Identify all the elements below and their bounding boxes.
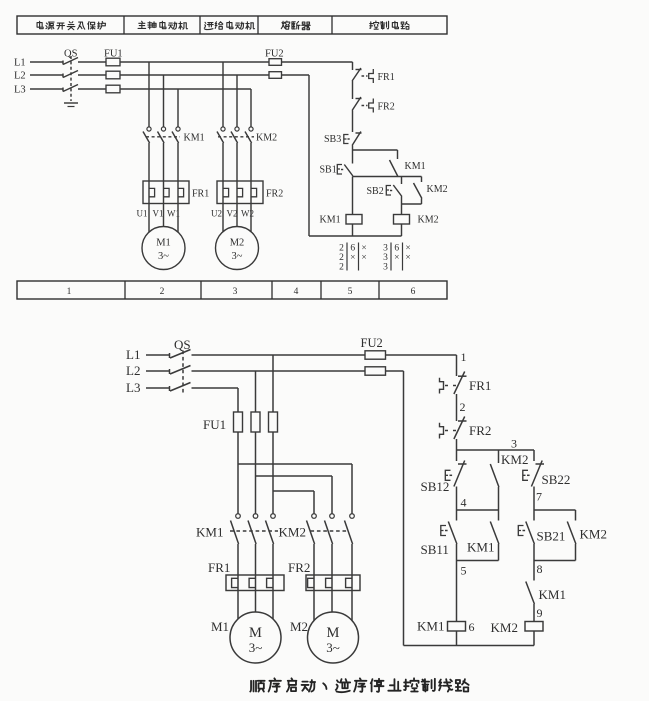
svg-text:SB12: SB12 [421, 479, 450, 494]
svg-text:L3: L3 [126, 380, 140, 395]
svg-text:FU2: FU2 [361, 336, 383, 350]
svg-text:FR1: FR1 [192, 189, 209, 200]
svg-text:L2: L2 [14, 71, 26, 82]
svg-text:M: M [249, 625, 262, 641]
svg-text:3~: 3~ [232, 251, 243, 262]
svg-text:×: × [361, 244, 366, 254]
svg-text:4: 4 [294, 287, 299, 297]
svg-text:FU2: FU2 [265, 49, 284, 60]
svg-text:SB2: SB2 [367, 186, 384, 197]
svg-text:FR2: FR2 [378, 102, 395, 113]
svg-text:5: 5 [461, 564, 467, 578]
svg-text:L2: L2 [126, 363, 140, 378]
svg-text:KM2: KM2 [279, 525, 306, 540]
svg-text:KM1: KM1 [417, 619, 444, 634]
svg-text:6: 6 [469, 620, 475, 634]
svg-text:3: 3 [383, 253, 388, 263]
svg-text:6: 6 [350, 244, 355, 254]
svg-text:M: M [327, 625, 340, 641]
svg-text:3~: 3~ [326, 640, 340, 655]
svg-text:KM1: KM1 [184, 133, 205, 144]
svg-text:KM2: KM2 [427, 184, 448, 195]
svg-text:L1: L1 [14, 58, 26, 69]
svg-text:KM1: KM1 [467, 540, 494, 555]
svg-text:W2: W2 [241, 209, 254, 219]
svg-text:KM2: KM2 [501, 452, 528, 467]
svg-text:2: 2 [339, 244, 344, 254]
svg-text:M1: M1 [156, 238, 171, 249]
svg-text:U2: U2 [211, 209, 222, 219]
svg-text:2: 2 [160, 287, 165, 297]
svg-text:L3: L3 [14, 85, 26, 96]
svg-text:6: 6 [411, 287, 416, 297]
svg-text:1: 1 [461, 350, 467, 364]
svg-text:7: 7 [536, 490, 542, 504]
svg-text:SB22: SB22 [542, 472, 571, 487]
svg-text:KM2: KM2 [580, 527, 607, 542]
svg-text:U1: U1 [137, 209, 148, 219]
svg-text:KM1: KM1 [196, 525, 223, 540]
svg-text:3: 3 [383, 263, 388, 273]
svg-text:5: 5 [348, 287, 353, 297]
svg-text:3: 3 [383, 244, 388, 254]
svg-text:FR2: FR2 [288, 560, 310, 575]
svg-text:3: 3 [233, 287, 238, 297]
svg-text:M2: M2 [290, 619, 308, 634]
svg-text:KM1: KM1 [320, 215, 341, 226]
svg-text:FR1: FR1 [469, 378, 491, 393]
svg-text:FU1: FU1 [203, 417, 226, 432]
svg-text:KM2: KM2 [256, 133, 277, 144]
svg-text:V2: V2 [227, 209, 238, 219]
svg-text:M2: M2 [230, 238, 245, 249]
svg-text:9: 9 [537, 606, 543, 620]
svg-text:3: 3 [511, 437, 517, 451]
svg-text:2: 2 [339, 263, 344, 273]
svg-text:L1: L1 [126, 347, 140, 362]
svg-text:×: × [394, 253, 399, 263]
svg-text:8: 8 [537, 562, 543, 576]
svg-text:M1: M1 [211, 619, 229, 634]
svg-text:KM2: KM2 [491, 620, 518, 635]
svg-text:×: × [361, 253, 366, 263]
svg-text:FR2: FR2 [266, 189, 283, 200]
svg-text:KM2: KM2 [418, 215, 439, 226]
svg-text:SB21: SB21 [537, 529, 566, 544]
svg-text:QS: QS [64, 49, 78, 60]
svg-text:×: × [350, 253, 355, 263]
svg-text:2: 2 [339, 253, 344, 263]
svg-text:×: × [405, 253, 410, 263]
svg-text:1: 1 [67, 287, 72, 297]
svg-text:FR1: FR1 [378, 72, 395, 83]
svg-text:3~: 3~ [158, 251, 169, 262]
svg-text:FR2: FR2 [469, 423, 491, 438]
svg-text:KM1: KM1 [405, 161, 426, 172]
svg-text:SB1: SB1 [320, 165, 337, 176]
svg-text:KM1: KM1 [539, 587, 566, 602]
svg-text:6: 6 [394, 244, 399, 254]
svg-text:SB11: SB11 [421, 542, 449, 557]
svg-text:2: 2 [460, 400, 466, 414]
svg-text:FR1: FR1 [208, 560, 230, 575]
svg-text:3~: 3~ [249, 640, 263, 655]
svg-text:×: × [405, 244, 410, 254]
svg-text:V1: V1 [153, 209, 164, 219]
svg-text:SB3: SB3 [324, 134, 341, 145]
svg-text:4: 4 [461, 496, 467, 510]
svg-text:QS: QS [174, 337, 191, 352]
